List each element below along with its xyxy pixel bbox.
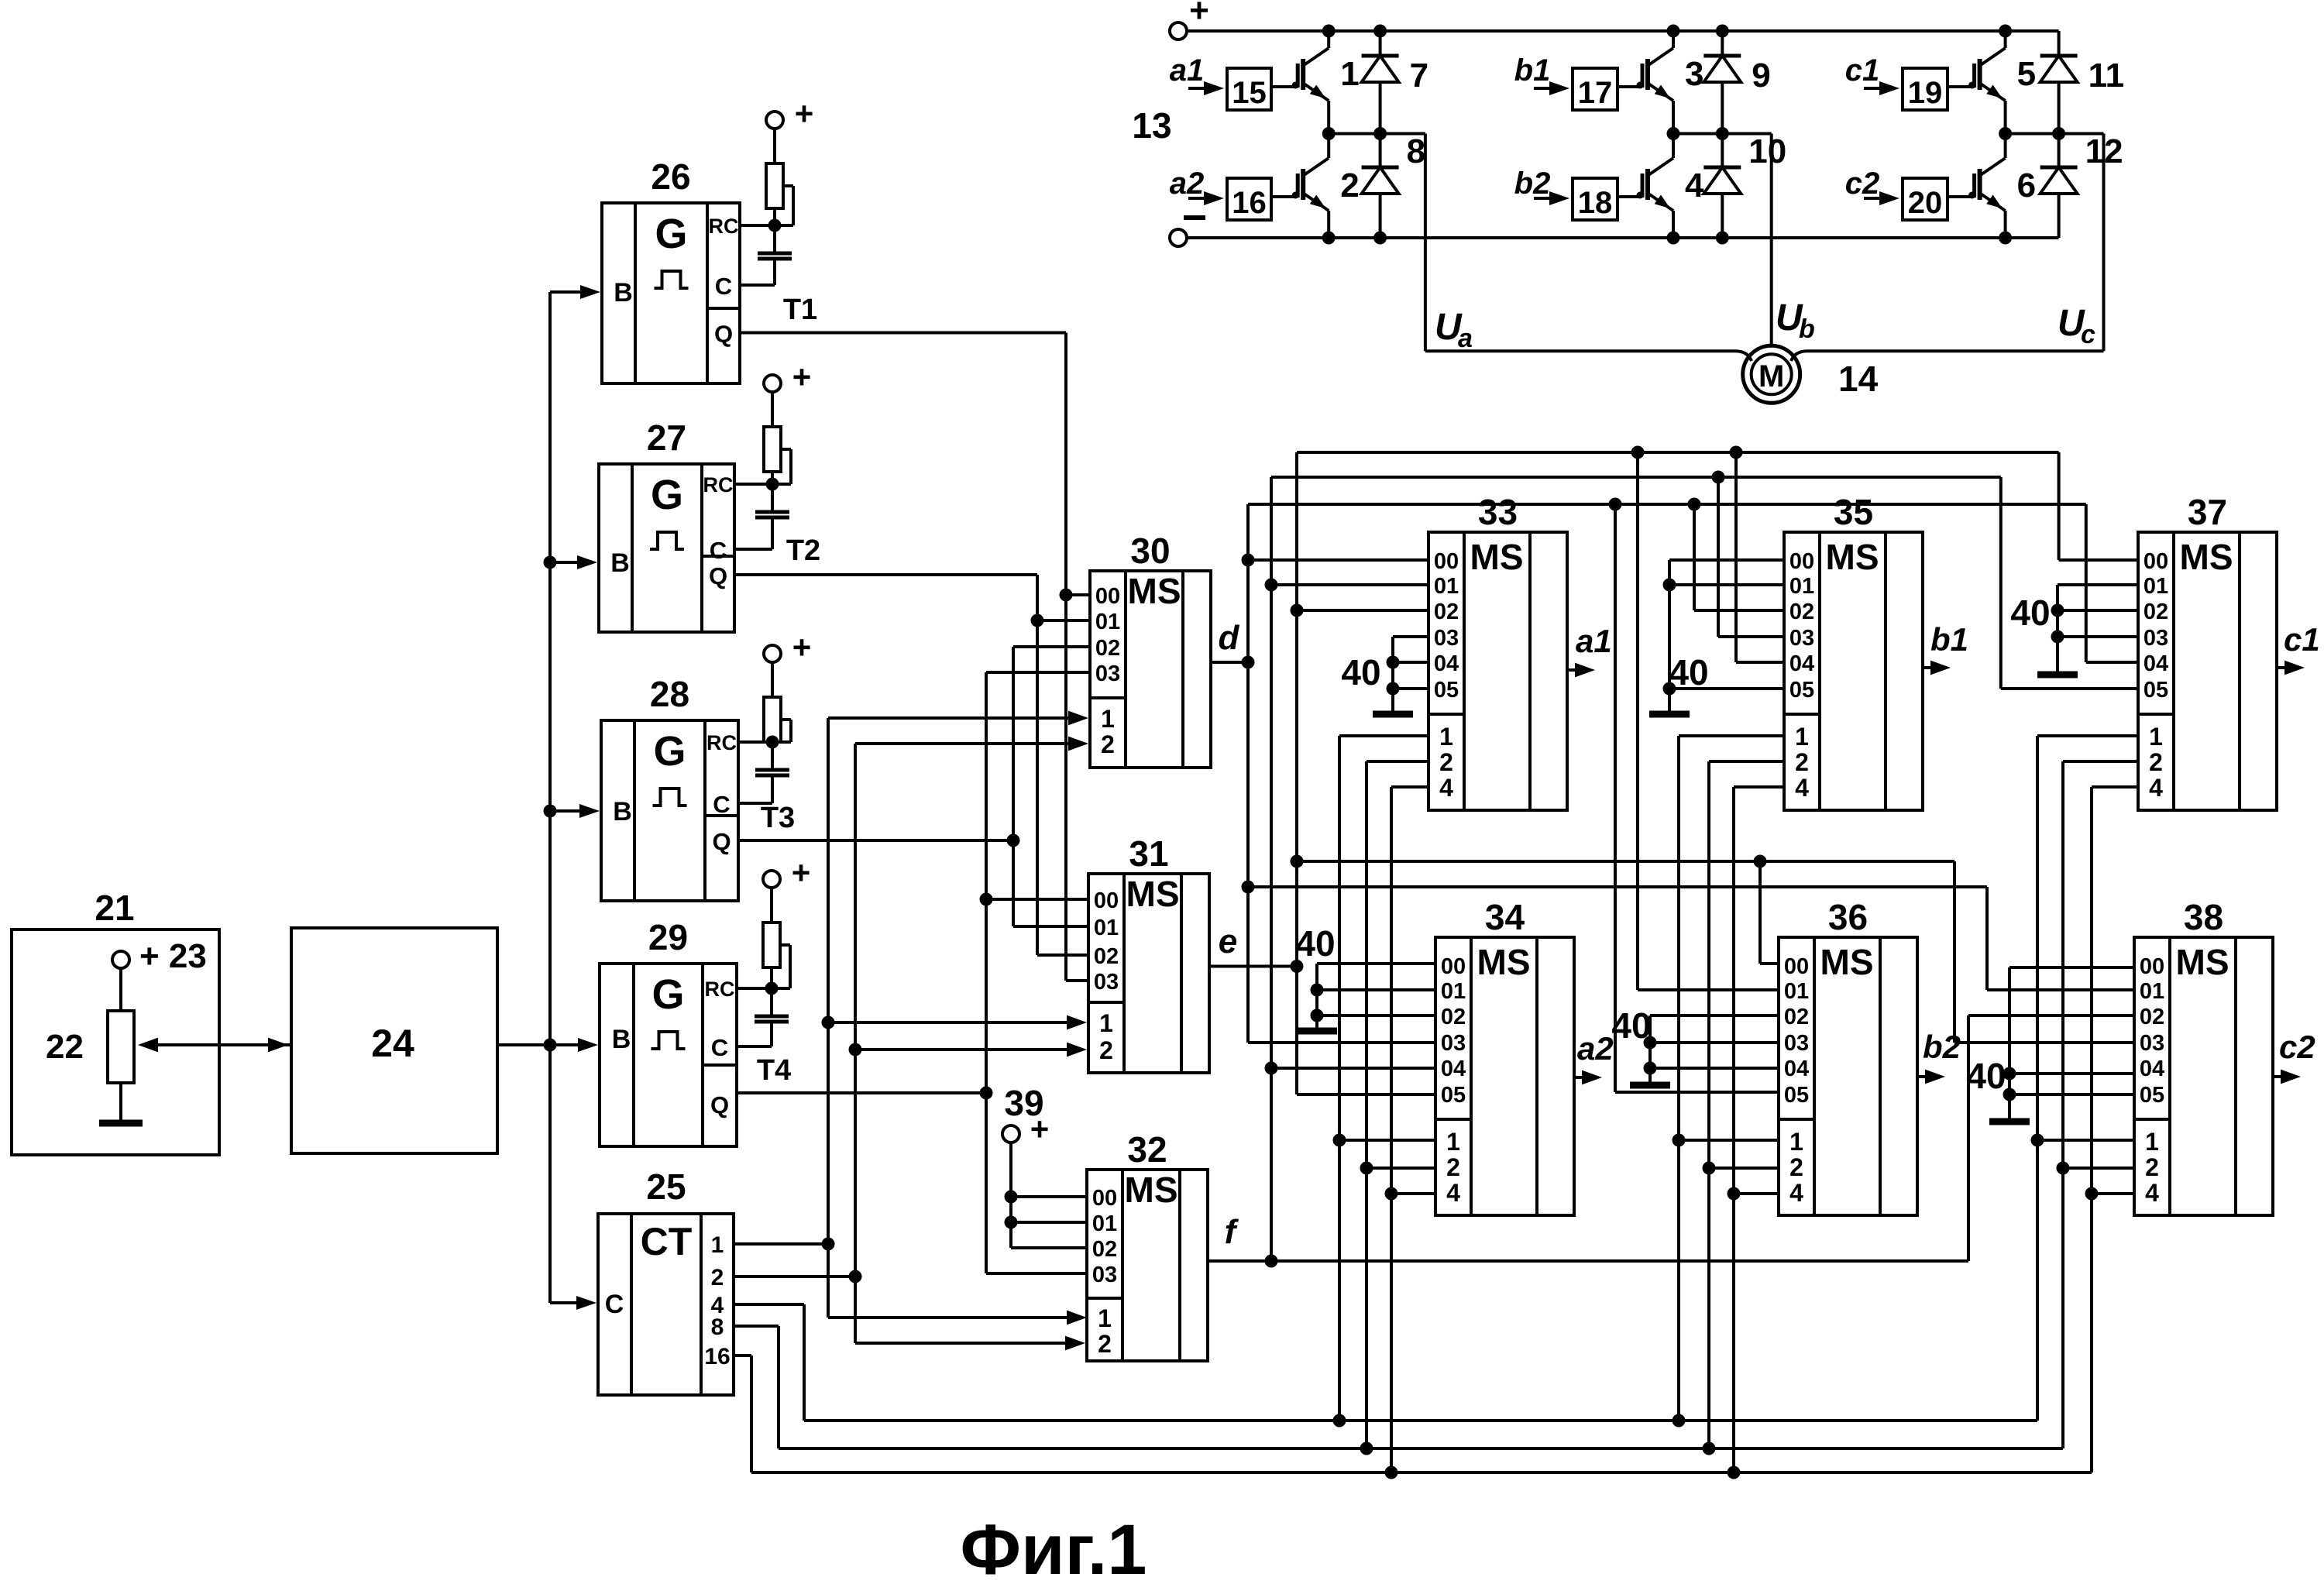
svg-text:1: 1 [1789,1128,1803,1156]
svg-text:40: 40 [1966,1056,2006,1096]
svg-text:00: 00 [2144,549,2168,574]
svg-text:04: 04 [2144,651,2168,676]
svg-text:1: 1 [1099,1009,1113,1037]
svg-text:1: 1 [1795,723,1809,751]
svg-text:40: 40 [1611,1005,1651,1046]
svg-text:C: C [605,1290,624,1319]
svg-text:26: 26 [651,156,690,197]
svg-text:01: 01 [1095,610,1120,634]
svg-text:05: 05 [1434,678,1459,703]
svg-text:05: 05 [2144,678,2168,703]
svg-text:02: 02 [1789,600,1814,624]
svg-text:c2: c2 [2279,1029,2315,1065]
svg-text:05: 05 [2140,1083,2164,1108]
svg-text:1: 1 [1101,705,1115,733]
svg-text:02: 02 [1095,636,1120,661]
svg-text:03: 03 [1095,661,1120,686]
svg-text:2: 2 [1340,167,1359,204]
svg-text:C: C [711,1034,728,1061]
svg-text:04: 04 [1784,1057,1809,1081]
svg-text:B: B [614,278,633,308]
svg-text:a2: a2 [1577,1030,1614,1067]
svg-text:MS: MS [2180,537,2233,577]
svg-text:a1: a1 [1170,53,1205,88]
svg-text:4: 4 [1795,774,1809,802]
svg-text:02: 02 [1094,944,1119,969]
svg-text:01: 01 [1789,574,1814,599]
svg-text:03: 03 [1789,626,1814,651]
svg-text:2: 2 [1795,748,1809,776]
svg-text:Q: Q [712,828,731,855]
svg-text:a1: a1 [1576,623,1612,659]
svg-text:b1: b1 [1514,53,1551,88]
svg-text:B: B [613,797,632,826]
svg-text:24: 24 [371,1022,414,1065]
svg-text:1: 1 [1098,1304,1112,1332]
svg-text:c: c [2081,320,2095,349]
svg-text:04: 04 [1441,1057,1466,1081]
svg-text:03: 03 [1092,1263,1117,1287]
svg-text:03: 03 [2140,1031,2164,1056]
svg-text:G: G [655,211,687,257]
svg-text:1: 1 [1439,723,1453,751]
svg-text:CT: CT [641,1220,693,1263]
svg-text:16: 16 [1232,186,1267,220]
svg-text:C: C [710,537,727,564]
svg-text:G: G [651,971,684,1018]
svg-text:3: 3 [1685,55,1703,93]
svg-text:4: 4 [1685,167,1704,204]
svg-text:M: M [1758,359,1784,393]
svg-text:4: 4 [2145,1179,2159,1207]
svg-text:b2: b2 [1514,167,1551,201]
svg-text:RC: RC [703,473,734,497]
svg-text:B: B [610,548,630,578]
svg-text:02: 02 [2140,1005,2164,1029]
svg-text:01: 01 [1094,916,1119,940]
svg-text:18: 18 [1578,186,1613,220]
svg-text:00: 00 [1441,954,1466,979]
svg-text:01: 01 [1092,1211,1117,1236]
svg-text:2: 2 [2149,748,2163,776]
svg-text:03: 03 [1434,626,1459,651]
svg-text:38: 38 [2184,897,2223,937]
svg-text:C: C [713,791,730,818]
svg-text:1: 1 [2149,723,2163,751]
svg-text:32: 32 [1127,1129,1167,1170]
svg-text:4: 4 [1789,1179,1803,1207]
svg-text:37: 37 [2188,492,2227,532]
svg-text:00: 00 [1789,549,1814,574]
svg-text:7: 7 [1410,57,1428,94]
svg-text:Q: Q [709,562,727,589]
svg-text:40: 40 [2010,593,2050,633]
svg-text:d: d [1219,619,1240,657]
svg-text:11: 11 [2089,57,2125,94]
svg-text:MS: MS [1470,537,1524,577]
svg-text:03: 03 [2144,626,2168,651]
svg-text:15: 15 [1232,76,1267,110]
svg-text:00: 00 [1784,954,1809,979]
svg-text:27: 27 [647,417,686,458]
svg-text:31: 31 [1129,833,1168,874]
svg-text:T3: T3 [761,802,795,834]
svg-text:1: 1 [1340,55,1359,93]
svg-text:MS: MS [2176,942,2229,982]
svg-text:02: 02 [1441,1005,1466,1029]
svg-text:33: 33 [1478,492,1518,532]
svg-text:b: b [1799,314,1815,344]
svg-text:c1: c1 [1845,53,1880,88]
svg-text:1: 1 [711,1232,724,1258]
svg-text:4: 4 [1439,774,1453,802]
svg-text:+: + [795,95,814,132]
svg-text:00: 00 [1095,584,1120,609]
svg-text:+: + [1030,1111,1050,1147]
svg-text:01: 01 [2140,979,2164,1004]
svg-text:01: 01 [1441,979,1466,1004]
svg-text:T2: T2 [786,534,820,567]
svg-text:22: 22 [46,1028,84,1066]
svg-text:04: 04 [1789,651,1814,676]
svg-text:T4: T4 [757,1054,791,1087]
svg-text:05: 05 [1784,1083,1809,1108]
svg-text:04: 04 [1434,651,1459,676]
svg-text:+: + [792,359,812,395]
svg-text:2: 2 [1099,1036,1113,1064]
svg-text:19: 19 [1908,76,1943,110]
svg-text:9: 9 [1752,57,1770,94]
svg-text:00: 00 [1092,1186,1117,1211]
svg-text:17: 17 [1578,76,1613,110]
svg-text:Q: Q [714,321,733,348]
svg-text:40: 40 [1669,652,1708,692]
svg-text:+: + [792,854,811,891]
svg-text:e: e [1219,923,1237,960]
svg-text:21: 21 [95,888,134,928]
svg-text:+ 23: + 23 [139,937,207,975]
svg-text:01: 01 [1784,979,1809,1004]
svg-text:00: 00 [1434,549,1459,574]
svg-text:02: 02 [1092,1237,1117,1262]
svg-text:8: 8 [711,1314,724,1340]
svg-text:03: 03 [1784,1031,1809,1056]
svg-text:00: 00 [2140,954,2164,979]
svg-text:RC: RC [709,215,739,238]
svg-text:13: 13 [1132,105,1171,146]
svg-text:b1: b1 [1930,621,1968,658]
svg-text:C: C [715,273,732,300]
svg-text:00: 00 [1094,888,1119,913]
svg-text:05: 05 [1789,678,1814,703]
svg-text:2: 2 [1101,730,1115,758]
svg-text:8: 8 [1407,132,1425,170]
svg-text:29: 29 [648,917,688,957]
svg-text:2: 2 [711,1265,724,1290]
svg-text:02: 02 [1434,600,1459,624]
svg-text:2: 2 [1446,1153,1460,1181]
svg-text:35: 35 [1834,492,1873,532]
svg-text:40: 40 [1295,923,1335,964]
svg-text:+: + [1189,0,1209,29]
svg-text:2: 2 [2145,1153,2159,1181]
svg-text:c2: c2 [1845,167,1880,201]
svg-text:5: 5 [2017,55,2036,93]
svg-text:28: 28 [650,674,689,714]
svg-text:05: 05 [1441,1083,1466,1108]
svg-text:T1: T1 [783,294,817,326]
svg-text:c1: c1 [2284,621,2320,658]
svg-text:MS: MS [1125,1170,1178,1210]
svg-text:RC: RC [706,731,737,754]
svg-text:6: 6 [2017,167,2036,204]
svg-text:B: B [612,1025,631,1054]
svg-text:MS: MS [1826,537,1879,577]
svg-text:01: 01 [2144,574,2168,599]
svg-text:4: 4 [2149,774,2163,802]
svg-text:G: G [653,728,686,775]
svg-text:2: 2 [1098,1330,1112,1358]
svg-text:10: 10 [1748,132,1786,170]
svg-text:30: 30 [1130,531,1170,571]
svg-text:40: 40 [1341,652,1380,692]
svg-text:MS: MS [1820,942,1874,982]
svg-text:01: 01 [1434,574,1459,599]
svg-text:RC: RC [705,978,735,1001]
svg-text:25: 25 [646,1167,686,1207]
svg-text:2: 2 [1439,748,1453,776]
svg-text:04: 04 [2140,1057,2164,1081]
svg-text:a2: a2 [1170,167,1205,201]
svg-text:MS: MS [1128,571,1181,611]
svg-text:02: 02 [2144,600,2168,624]
svg-text:16: 16 [704,1344,730,1369]
svg-text:2: 2 [1789,1153,1803,1181]
svg-text:Фиг.1: Фиг.1 [961,1510,1147,1580]
svg-text:02: 02 [1784,1005,1809,1029]
svg-text:Q: Q [710,1091,729,1118]
svg-text:34: 34 [1485,897,1525,937]
svg-text:MS: MS [1477,942,1531,982]
svg-text:14: 14 [1838,359,1879,399]
svg-text:03: 03 [1094,970,1119,995]
svg-text:1: 1 [1446,1128,1460,1156]
svg-text:20: 20 [1908,186,1943,220]
svg-text:4: 4 [1446,1179,1460,1207]
svg-text:a: a [1458,324,1473,353]
svg-text:MS: MS [1126,874,1180,914]
svg-text:03: 03 [1441,1031,1466,1056]
svg-text:G: G [651,472,683,518]
svg-text:+: + [792,629,812,665]
svg-text:36: 36 [1828,897,1868,937]
svg-text:1: 1 [2145,1128,2159,1156]
